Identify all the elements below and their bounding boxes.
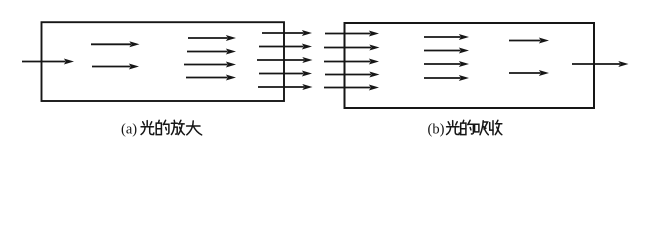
enter arrow 1 [325, 31, 379, 37]
photon arrow b1-4 [424, 75, 469, 81]
photon arrow a1-2 [92, 64, 139, 70]
exit arrow 5 [258, 84, 313, 90]
box (b) absorbing medium [345, 23, 595, 108]
exit arrow 2 [259, 44, 312, 50]
enter arrow 4 [325, 72, 380, 78]
exit arrow 1 [262, 30, 312, 36]
hanzi de (of) label b [461, 120, 474, 134]
photon arrow b2-2 [509, 70, 549, 76]
hanzi shou (receive) label b [490, 120, 502, 135]
svg-text:(a): (a) [121, 121, 137, 137]
photon arrow a2-2 [187, 49, 236, 55]
photon arrow b1-3 [424, 61, 469, 67]
exit arrow 4 [259, 71, 312, 77]
photon arrow b1-2 [424, 48, 469, 54]
photon arrow a2-4 [186, 75, 236, 81]
photon arrow a2-3 [184, 62, 236, 68]
enter arrow 3 [324, 59, 379, 65]
box (a) gain medium [42, 22, 285, 101]
output arrow [572, 61, 629, 67]
photon arrow b1-1 [424, 34, 469, 40]
exit arrow 3 [257, 57, 313, 63]
hanzi xi (absorb) label b [475, 121, 489, 135]
hanzi guang (light) label a [141, 121, 154, 135]
svg-text:(b): (b) [428, 121, 445, 137]
photon arrow a2-1 [188, 35, 236, 41]
hanzi guang (light) label b [447, 121, 460, 135]
enter arrow 5 [324, 85, 379, 91]
hanzi de (of) label a [156, 120, 169, 134]
hanzi da (big) label a [187, 121, 202, 135]
photon arrow b2-1 [509, 38, 549, 44]
enter arrow 2 [324, 45, 380, 51]
photon arrow a1-1 [91, 41, 140, 47]
hanzi fang (amplify-fang) label a [171, 120, 184, 134]
input arrow [22, 59, 74, 65]
